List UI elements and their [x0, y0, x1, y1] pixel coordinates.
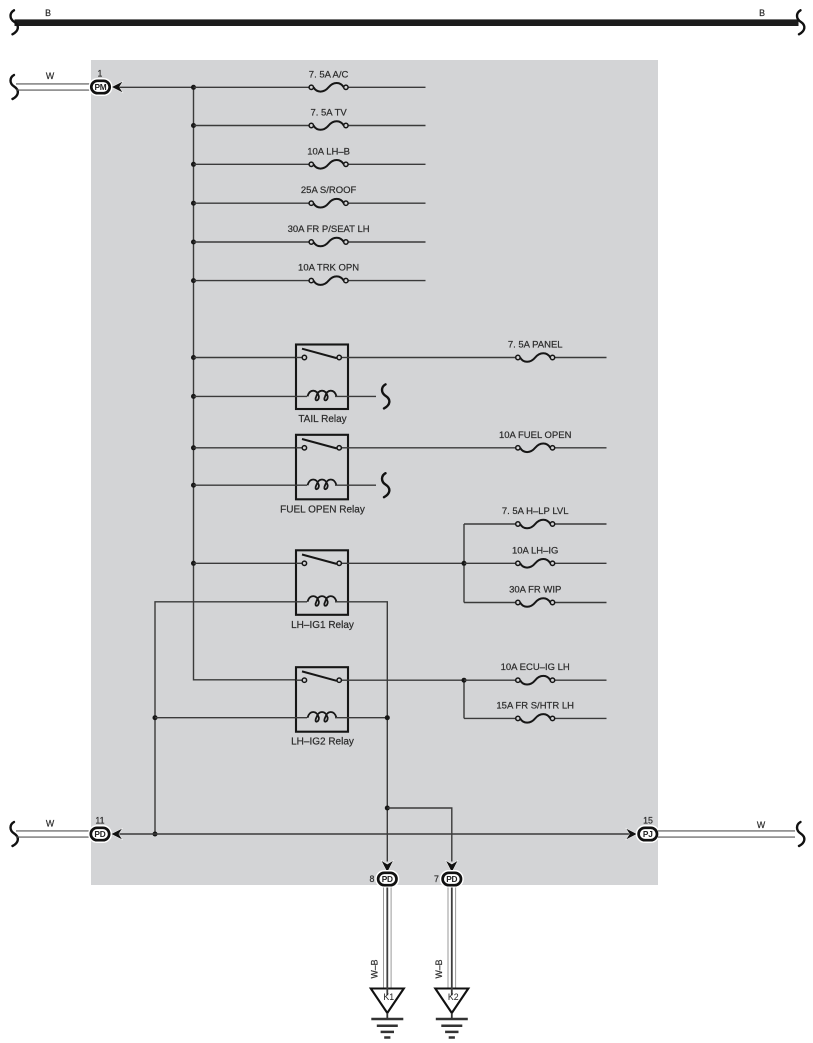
continuation symbol top-left — [11, 10, 18, 34]
svg-text:25A S/ROOF: 25A S/ROOF — [301, 185, 357, 196]
wire W bottom left — [16, 831, 90, 837]
wire color label W — [46, 71, 55, 81]
coil of LH-IG1 relay — [308, 596, 337, 606]
connector PM — [89, 78, 113, 96]
fuse 15A FR S/HTR LH — [464, 700, 607, 722]
svg-text:15A FR S/HTR LH: 15A FR S/HTR LH — [496, 700, 574, 711]
arrow into PD 8 — [382, 861, 393, 872]
fuse 10A FUEL OPEN — [348, 430, 607, 452]
junction on bus row 6 — [191, 278, 196, 283]
connector PJ pin 15 — [636, 825, 660, 843]
relay TAIL Relay — [296, 345, 348, 426]
junction on bus (TAIL coil) — [191, 394, 196, 399]
junction on bus (FUEL OPEN switch) — [191, 445, 196, 450]
wire W-B to K2 — [448, 888, 456, 989]
svg-text:PD: PD — [382, 874, 393, 884]
wire color label W-B left — [370, 959, 380, 978]
junction at branch (ECU-IG) — [462, 678, 467, 683]
fuse 7.5A TV — [194, 108, 426, 130]
wire bus to TAIL coil — [194, 395, 308, 397]
wire W-B to K1 — [384, 888, 392, 989]
coil of TAIL relay — [308, 391, 337, 401]
junction at branch (LH-IG) — [462, 561, 467, 566]
svg-text:7. 5A TV: 7. 5A TV — [310, 108, 347, 119]
junction on bus row 1 — [191, 85, 196, 90]
wire right branch vertical (IG2 fuses) — [463, 680, 465, 718]
net label B right — [759, 8, 765, 18]
wire bus to FUEL OPEN switch — [194, 447, 297, 449]
svg-text:10A FUEL OPEN: 10A FUEL OPEN — [499, 430, 572, 441]
wire W (to connector PM) — [16, 84, 90, 90]
junction LH-IG2 coil left — [153, 715, 158, 720]
wire TAIL coil out to continuation — [335, 395, 376, 397]
svg-text:LH–IG1 Relay: LH–IG1 Relay — [291, 620, 354, 631]
ground point K1 — [371, 988, 404, 1014]
ground point K2 — [435, 988, 468, 1014]
wire FUEL OPEN coil out — [335, 484, 376, 486]
svg-text:K2: K2 — [448, 992, 459, 1002]
junction LH-IG2 coil right — [385, 715, 390, 720]
svg-text:W: W — [46, 819, 55, 829]
arrow into PD 7 — [446, 861, 457, 872]
svg-text:W: W — [757, 820, 766, 830]
junction block background — [91, 60, 658, 885]
wire LH-IG2 switch to branch — [348, 679, 464, 681]
net label B left — [45, 8, 51, 18]
wire LH-IG1 coil right to x387 — [335, 602, 387, 862]
junction at x387 y808 — [385, 806, 390, 811]
wire bottom row 11PD to 15PJ — [119, 833, 631, 835]
svg-text:30A FR WIP: 30A FR WIP — [509, 585, 561, 596]
relay LH-IG1 Relay — [291, 550, 354, 631]
fuse 10A LH-B — [194, 146, 426, 168]
fuse 30A FR WIP — [464, 585, 607, 607]
wire right branch vertical (IG1 fuses) — [463, 524, 465, 603]
relay FUEL OPEN Relay — [280, 435, 365, 516]
ground symbol K2 — [436, 1013, 468, 1038]
wire bus to TAIL relay switch — [194, 357, 297, 359]
coil of FUEL OPEN relay — [308, 480, 337, 490]
arrow into PJ 15 — [626, 829, 636, 839]
wire W bottom right — [658, 831, 795, 837]
svg-text:B: B — [759, 8, 765, 18]
pin number 8 — [370, 874, 375, 884]
wire bus to LH-IG1 switch — [194, 562, 297, 564]
junction on bus (TAIL switch) — [191, 355, 196, 360]
svg-text:PJ: PJ — [643, 829, 653, 839]
wire LH-IG2 coil right to x387 — [335, 717, 387, 719]
fuse 7.5A PANEL — [348, 340, 607, 362]
svg-text:K1: K1 — [383, 992, 394, 1002]
svg-text:LH–IG2 Relay: LH–IG2 Relay — [291, 737, 354, 748]
junction on bus (FUEL OPEN coil) — [191, 483, 196, 488]
fuse 7.5A A/C — [194, 69, 426, 91]
wire color label W-B right — [434, 959, 444, 978]
coil of LH-IG2 relay — [308, 712, 337, 722]
svg-text:W–B: W–B — [370, 959, 380, 978]
arrow into PM — [112, 82, 122, 92]
continuation symbol TAIL coil — [382, 384, 389, 408]
wire color label W bottom right — [757, 820, 766, 830]
pin number 15 — [643, 816, 653, 826]
wire color label W bottom left — [46, 819, 55, 829]
junction on bus row 3 — [191, 162, 196, 167]
fuse 25A S/ROOF — [194, 185, 426, 207]
svg-text:W: W — [46, 71, 55, 81]
svg-text:B: B — [45, 8, 51, 18]
svg-text:PD: PD — [94, 829, 105, 839]
continuation symbol FUEL OPEN coil — [382, 473, 389, 497]
svg-text:10A LH–IG: 10A LH–IG — [512, 545, 558, 556]
fuse 10A TRK OPN — [194, 263, 426, 285]
svg-text:15: 15 — [643, 816, 653, 826]
svg-text:7: 7 — [434, 874, 439, 884]
pin number 7 — [434, 874, 439, 884]
pin number 11 — [95, 816, 104, 826]
wire x155 to LH-IG2 coil — [155, 717, 307, 719]
fuse 7.5A H-LP LVL — [464, 506, 607, 528]
continuation symbol left of W wire bottom — [11, 822, 18, 846]
wire PM to bus — [119, 86, 194, 88]
wire main vertical bus — [194, 87, 297, 680]
svg-text:7. 5A H–LP LVL: 7. 5A H–LP LVL — [502, 506, 569, 517]
connector PD pin 8 — [375, 870, 399, 888]
junction on bus (LH-IG1 switch) — [191, 561, 196, 566]
arrow into PD 11 — [112, 829, 122, 839]
junction on bus row 5 — [191, 240, 196, 245]
svg-text:TAIL Relay: TAIL Relay — [298, 414, 346, 425]
svg-text:PM: PM — [94, 82, 106, 92]
wire LH-IG1 switch to branch — [348, 562, 464, 564]
svg-text:10A LH–B: 10A LH–B — [307, 146, 350, 157]
ground symbol K1 — [371, 1013, 403, 1038]
wire bus to FUEL OPEN coil — [194, 484, 308, 486]
wire B main bus bar — [15, 19, 799, 26]
svg-text:7. 5A PANEL: 7. 5A PANEL — [508, 340, 563, 351]
continuation symbol right of W wire bottom — [797, 822, 804, 846]
svg-text:FUEL OPEN Relay: FUEL OPEN Relay — [280, 504, 365, 515]
wire LH-IG1 coil left to x155 — [155, 602, 307, 834]
svg-text:PD: PD — [446, 874, 457, 884]
svg-text:1: 1 — [98, 69, 103, 79]
wire branch to pin 7 — [387, 808, 452, 862]
relay LH-IG2 Relay — [291, 667, 354, 748]
fuse 10A LH-IG — [464, 545, 607, 567]
svg-text:8: 8 — [370, 874, 375, 884]
junction x155 bottom row — [153, 832, 158, 837]
junction on bus row 4 — [191, 201, 196, 206]
svg-text:W–B: W–B — [434, 959, 444, 978]
svg-text:11: 11 — [95, 816, 104, 826]
svg-text:10A ECU–IG LH: 10A ECU–IG LH — [501, 662, 570, 673]
svg-text:30A FR P/SEAT LH: 30A FR P/SEAT LH — [288, 224, 370, 235]
pin number 1 — [98, 69, 103, 79]
continuation symbol left of W wire — [11, 75, 18, 99]
svg-text:7. 5A A/C: 7. 5A A/C — [309, 69, 349, 80]
fuse 30A FR P/SEAT LH — [194, 224, 426, 246]
continuation symbol top-right — [797, 10, 804, 34]
svg-text:10A TRK OPN: 10A TRK OPN — [298, 263, 359, 274]
fuse 10A ECU-IG LH — [464, 662, 607, 684]
connector PD pin 11 — [88, 825, 112, 843]
connector PD pin 7 — [440, 870, 464, 888]
junction on bus row 2 — [191, 123, 196, 128]
